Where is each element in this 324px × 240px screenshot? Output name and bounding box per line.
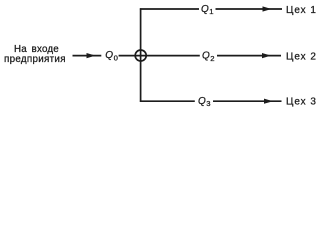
wire top branch right segment [216,8,283,10]
wire input arrow line [73,55,102,57]
svg-text:Цех 2: Цех 2 [286,51,317,62]
svg-text:1: 1 [209,7,213,16]
wire Q0 through node to Q2 [119,55,200,57]
arrowhead input [87,53,96,58]
arrowhead bottom branch [264,99,273,104]
wire bottom branch left segment [140,100,195,102]
svg-text:Q: Q [202,50,210,61]
svg-text:Q: Q [198,96,206,107]
svg-text:Цех 1: Цех 1 [286,5,317,16]
wire middle branch right segment [217,55,281,57]
svg-text:предприятия: предприятия [4,54,66,65]
svg-text:0: 0 [114,53,118,62]
svg-text:2: 2 [210,54,214,63]
wire vertical trunk [140,8,142,102]
arrowhead top branch [263,6,272,11]
svg-text:Q: Q [201,4,209,15]
arrowhead middle branch [262,53,271,58]
svg-text:3: 3 [206,99,210,108]
node summation junction [135,50,146,61]
wire top branch left segment [140,8,199,10]
wire bottom branch right segment [213,100,282,102]
svg-text:Q: Q [105,50,113,61]
svg-text:Цех 3: Цех 3 [286,97,317,108]
